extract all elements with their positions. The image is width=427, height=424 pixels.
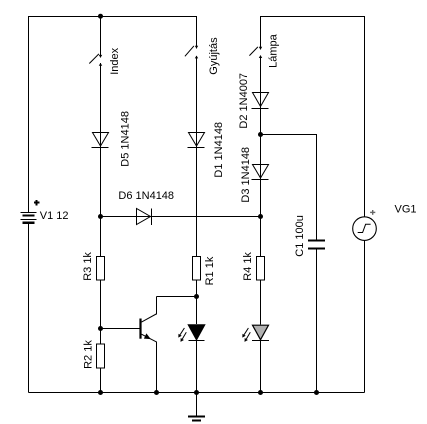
diode D5	[92, 133, 109, 148]
svg-text:D5 1N4148: D5 1N4148	[120, 111, 132, 167]
wire LED D4 to ground rail	[196, 341, 198, 393]
svg-text:C1 100u: C1 100u	[294, 215, 306, 257]
switch SW-Gyujtas	[185, 46, 198, 59]
wire D1 to R1 (crosses D6 net without junction)	[196, 148, 198, 257]
wire ground rail	[29, 392, 365, 394]
node dot ground/R2	[98, 390, 103, 395]
ground symbol	[188, 393, 205, 421]
resistor R4	[257, 257, 265, 281]
LED D7 (grey)	[242, 325, 269, 342]
svg-text:Lámpa: Lámpa	[267, 33, 279, 68]
svg-text:R4 1k: R4 1k	[242, 252, 254, 281]
wire VG1 to ground rail	[364, 240, 366, 392]
wire battery minus to ground rail	[28, 224, 30, 393]
node junction dot top rail / Index column	[98, 14, 103, 19]
wire top rail right (Lampa top to VG1)	[261, 17, 365, 218]
svg-text:D6 1N4148: D6 1N4148	[118, 190, 174, 202]
wire D6 cathode segment to Lampa column	[152, 216, 261, 218]
node junction dot R3/R2/base	[98, 326, 103, 331]
wire Index column upper	[100, 17, 102, 58]
wire R4 to LED D7	[260, 280, 262, 325]
node dot ground/C1	[314, 390, 319, 395]
svg-text:VG1: VG1	[395, 204, 417, 216]
diode D6	[137, 209, 152, 226]
battery V1	[21, 213, 37, 223]
wire R3 to node base	[100, 280, 102, 344]
wire top rail left (battery+ to Gyujtas top)	[29, 17, 197, 213]
diode D1	[188, 133, 205, 148]
switch SW-Lampa	[249, 47, 262, 58]
svg-text:R1 1k: R1 1k	[204, 256, 216, 285]
transistor Q1	[141, 297, 157, 393]
wire D3 cathode to node D216	[260, 180, 262, 257]
resistor R3	[97, 257, 105, 281]
wire R1 to node collector	[196, 280, 198, 324]
wire node D134 to capacitor C1	[261, 135, 317, 241]
wire D6 anode segment	[101, 216, 152, 218]
svg-text:D3 1N4148: D3 1N4148	[240, 147, 252, 203]
generator VG1	[353, 217, 377, 241]
wire D5 to node B216	[100, 148, 102, 257]
battery V1 plus sign	[34, 200, 40, 206]
node dot ground/LED D4	[194, 390, 199, 395]
resistor R2	[97, 344, 105, 368]
node junction dot D6 net / Lampa column	[258, 214, 263, 219]
wire collector net horizontal	[157, 296, 197, 298]
svg-text:Gyújtás: Gyújtás	[208, 37, 220, 75]
wire Gyujtas column to D1	[196, 56, 198, 148]
wire D2 cathode to node D134	[260, 109, 262, 180]
svg-text:R3 1k: R3 1k	[82, 252, 94, 281]
wire LED D7 to ground rail	[260, 341, 262, 393]
svg-text:Index: Index	[109, 47, 121, 74]
capacitor C1	[308, 241, 325, 249]
diode D3	[252, 165, 269, 180]
generator VG1 plus sign	[370, 210, 375, 215]
switch SW-Index	[89, 54, 102, 66]
node junction dot R1/collector/LED	[194, 294, 199, 299]
node dot ground/LED D7	[258, 390, 263, 395]
node junction dot D2/D3/C1	[258, 132, 263, 137]
svg-text:R2 1k: R2 1k	[83, 340, 95, 369]
resistor R1	[193, 257, 201, 281]
diode D2	[252, 93, 269, 109]
svg-text:D1 1N4148: D1 1N4148	[213, 122, 225, 178]
wire R2 to ground rail	[100, 368, 102, 393]
node junction dot D5/R3/D6	[98, 214, 103, 219]
wire Index column to D5	[100, 63, 102, 147]
wire C1 to ground rail	[316, 249, 318, 393]
LED D4 (black)	[178, 325, 204, 342]
svg-text:D2 1N4007: D2 1N4007	[238, 73, 250, 129]
svg-text:V1 12: V1 12	[40, 210, 69, 222]
wire base net	[101, 328, 140, 330]
node dot ground/emitter	[154, 390, 159, 395]
wire Lampa column to D2	[260, 55, 262, 108]
